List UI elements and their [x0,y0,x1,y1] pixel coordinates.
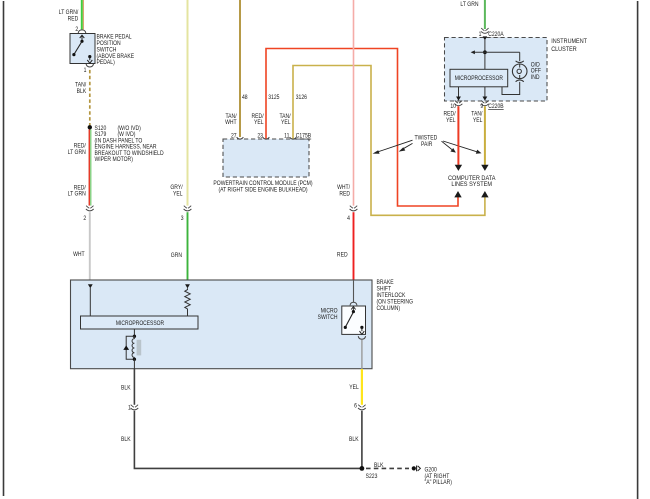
svg-text:3125: 3125 [268,95,279,102]
shift lock module box [71,280,373,369]
label TAN/YEL pcm [279,113,291,126]
wire TAN circuit 48 [239,0,241,137]
label RED/LT GRN upper [68,143,86,156]
wire BLK dashed to ground [366,467,409,469]
svg-text:2: 2 [75,27,78,34]
arrow down TAN/YEL to data lines [481,165,488,171]
svg-text:COLUMN): COLUMN) [377,306,401,313]
arrow up TAN/YEL into data lines system [481,191,488,197]
svg-text:PAIR: PAIR [421,142,432,149]
connector C220A [481,28,489,33]
svg-text:(AT RIGHT SIDE ENGINE BULKHEAD: (AT RIGHT SIDE ENGINE BULKHEAD) [218,187,307,194]
pin 4 inline connector [347,215,350,222]
arrow down RED/YEL to data lines [455,165,462,171]
splice S120/S179 [88,125,92,129]
connector inline pin 6 [358,405,366,410]
label RED/YEL pcm [252,113,265,126]
wire micro switch to module edge [361,340,363,369]
pin 1 instrument cluster [479,32,482,39]
twisted pair arrow to TAN/YEL left [373,140,413,154]
label ground G200 [425,467,453,486]
connector cup PCM pin 23 [263,137,270,139]
instrument cluster box [445,38,548,102]
pin 2 inline connector left [83,215,86,222]
microprocessor U1 box in cluster [450,69,508,87]
label BLK left upper [121,385,131,392]
svg-text:6: 6 [354,403,357,410]
svg-text:27: 27 [231,133,237,140]
wire RED/LT GRN [89,130,91,206]
svg-text:1: 1 [84,67,87,74]
svg-text:YEL: YEL [446,118,456,125]
wire cluster microprocessor to pin 10 [456,87,461,101]
label TAN/BLK [75,82,86,95]
arrow up RED/YEL into data lines system [454,191,461,197]
wire relay to module edge [133,359,135,369]
label splice S120 S179 [95,125,164,163]
pin 10 instrument cluster [450,103,456,110]
connector below micro switch [358,336,365,339]
label twisted pair [415,135,438,148]
page right border [637,1,639,499]
label TAN/WHT [225,113,237,126]
label microprocessor module [116,321,164,328]
svg-text:YEL: YEL [349,385,359,392]
micro switch box [342,306,366,334]
svg-text:YEL: YEL [254,120,264,127]
label BLK left lower [121,437,131,444]
svg-text:INTERLOCK: INTERLOCK [377,293,406,300]
svg-text:YEL: YEL [281,120,291,127]
label brake shift interlock [377,280,414,313]
splice S223 [360,466,365,471]
wire LT GRN into instrument cluster [484,0,486,29]
wire GRN [187,212,189,280]
wire WHT/RED [353,0,355,206]
svg-text:RED: RED [337,252,348,259]
pin 9 instrument cluster [480,103,483,110]
svg-text:PEDAL): PEDAL) [97,60,115,67]
arrow WHT input into module [88,284,93,288]
svg-text:YEL: YEL [473,118,483,125]
label LT GRN [460,2,478,9]
twisted pair arrow to TAN/YEL right [443,141,482,154]
svg-text:GRN: GRN [171,253,182,260]
resistor R1 on GRN input [185,288,190,316]
label powertrain control module [213,180,312,193]
svg-text:WHT: WHT [225,120,237,127]
pin 11 of PCM [284,133,289,140]
wire cluster pin1 to microprocessor [484,40,486,70]
arrow into cluster from pin 1 [483,36,488,40]
connector at brake pedal position switch pin 1 [86,64,93,67]
label S223 [366,473,378,480]
svg-text:LINES SYSTEM: LINES SYSTEM [451,182,492,188]
label TAN/YEL cluster [471,111,483,124]
svg-text:MICROPROCESSOR: MICROPROCESSOR [116,321,164,328]
node relay top [133,335,136,338]
svg-text:WIPER MOTOR): WIPER MOTOR) [95,157,133,164]
page left border [3,1,5,496]
node junction in cluster [483,50,487,54]
pin 27 of PCM [231,133,237,140]
wire O/D lamp return [502,82,520,95]
svg-text:LT GRN: LT GRN [68,191,86,198]
connector inline pin 3 [184,206,192,211]
svg-text:C220B: C220B [488,103,504,110]
wire WHT [89,212,91,280]
connector C220B pin 9 [481,101,489,106]
wire BLK right branch [361,411,363,467]
diode D1 branch of relay [123,336,134,359]
wire microprocessor to relay coil [133,329,135,336]
pin 3 inline connector [181,215,184,222]
svg-text:RED: RED [339,191,350,198]
label BLK right [349,437,359,444]
svg-text:1: 1 [128,405,131,412]
twisted pair arrow to RED/YEL left [399,143,413,151]
pin 2 of brake pedal position switch [75,27,78,34]
node relay bottom [133,358,136,361]
label microprocessor cluster [455,76,503,83]
svg-text:SWITCH: SWITCH [318,314,338,321]
svg-text:BLK: BLK [77,88,87,95]
connector inline pin 1 bottom [131,405,139,410]
svg-text:CLUSTER: CLUSTER [551,47,577,53]
wire TAN/BLK dashed [89,70,91,126]
connector inline pin 4 [350,206,358,211]
connector C220B pin 10 [455,101,463,106]
relay coil L1 [132,336,141,359]
svg-text:BLK: BLK [121,437,131,444]
wire BLK left branch from module [133,369,135,405]
label GRY/YEL [170,185,183,198]
brake pedal position switch contacts [72,35,92,63]
wire YEL below module [361,369,363,405]
connector cup PCM pin 27 [237,137,244,139]
wire RED [353,212,355,280]
label BLK ground lead [374,462,384,469]
svg-text:9: 9 [480,103,483,110]
pin 1 inline connector bottom [128,405,131,412]
microprocessor U2 box in module [81,316,199,329]
label circuit 48 [242,95,248,102]
svg-text:TWISTED: TWISTED [415,135,438,142]
wire branch to O/D lamp [471,50,520,61]
svg-text:LT GRN: LT GRN [460,2,478,9]
wire TAN/YEL from cluster pin 9 [484,106,486,165]
wire WHT input to microprocessor [89,288,91,316]
micro switch contacts [344,307,365,335]
svg-text:BLK: BLK [349,437,359,444]
wire cluster microprocessor to pin 9 [483,87,488,101]
svg-text:BLK: BLK [121,385,131,392]
svg-text:YEL: YEL [173,191,183,198]
connector C inline left pin 2 [86,206,94,211]
connector at brake pedal position switch pin 2 [78,30,86,33]
svg-text:RED: RED [68,16,79,23]
label connector C175B [296,133,312,140]
svg-text:C175B: C175B [296,133,312,140]
label YEL [349,385,359,392]
label brake pedal position switch [97,34,135,66]
label RED [337,252,348,259]
pin 1 of brake pedal position switch [84,67,87,74]
arrow GRN input into module [185,284,190,288]
svg-text:WHT: WHT [73,252,85,259]
twisted pair arrow to RED/YEL right [442,141,456,152]
svg-text:48: 48 [242,95,248,102]
svg-text:10: 10 [450,103,456,110]
svg-text:"A" PILLAR): "A" PILLAR) [425,480,453,487]
pin 23 of PCM [257,133,263,140]
svg-text:2: 2 [83,215,86,222]
label LT GRN/RED [59,10,79,23]
connector cup PCM pin 11 [290,137,297,139]
wire RED/YEL from cluster pin 10 [457,106,459,165]
wire GRY/YEL [187,0,189,206]
svg-text:3: 3 [181,215,184,222]
label circuit 3125 [268,95,279,102]
label computer data lines system [448,176,496,189]
label O/D OFF IND [531,62,541,81]
svg-text:LT GRN: LT GRN [68,149,86,156]
svg-text:MICROPROCESSOR: MICROPROCESSOR [455,76,503,83]
brake pedal position switch S1 box [70,34,95,64]
wire RED/YEL circuit 3125 [266,49,458,207]
svg-text:23: 23 [257,133,263,140]
wire BLK left lower to S223 [134,411,362,469]
label WHT [73,252,85,259]
wire lead into micro switch [353,280,355,302]
O/D OFF indicator lamp [512,61,527,82]
svg-text:11: 11 [284,133,289,140]
label connector C220A [488,32,504,39]
label instrument cluster [551,39,587,53]
label circuit 3126 [296,95,307,102]
label RED/YEL cluster [444,111,457,124]
pin 6 inline connector [354,403,357,410]
svg-text:3126: 3126 [296,95,307,102]
ground G200 symbol [412,466,421,472]
wire TAN/YEL circuit 3126 [293,66,485,216]
powertrain control module PCM box [223,139,309,177]
wire LT GRN/RED to brake pedal position switch [82,0,84,29]
label RED/LT GRN lower [68,185,86,198]
label connector C220B [488,103,504,110]
svg-text:S223: S223 [366,473,378,480]
label WHT/RED [337,185,350,198]
svg-text:INSTRUMENT: INSTRUMENT [551,39,587,45]
svg-text:IND: IND [531,75,540,82]
label micro switch [318,308,338,321]
connector above micro switch [350,302,357,305]
label GRN [171,253,182,260]
